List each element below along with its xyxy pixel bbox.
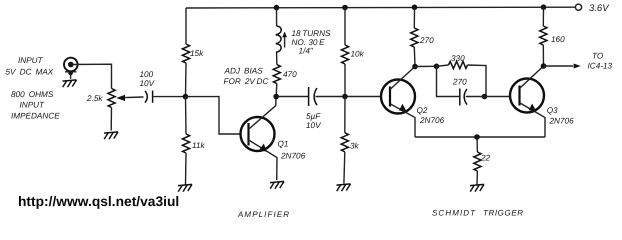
resistor R2 15k [182, 8, 204, 97]
svg-text:270: 270 [419, 36, 434, 45]
svg-text:FOR 2V DC: FOR 2V DC [224, 77, 269, 86]
node junction dot emitter rail [474, 134, 480, 140]
svg-text:INPUT: INPUT [20, 101, 46, 110]
wire C2 to Q2 base [316, 96, 383, 98]
transistor Q2 2N706 [381, 67, 445, 138]
transistor Q1 2N706 [241, 97, 306, 180]
node junction dot top of 270 branch [412, 5, 418, 11]
wire pot to ground [110, 108, 112, 131]
resistor R6 3k [341, 97, 359, 184]
wire output to IC4-13 [544, 52, 613, 71]
capacitor C1 100/10V [140, 70, 156, 103]
connector J1 input jack [64, 58, 78, 79]
wire jack to pot [71, 64, 112, 88]
svg-text:160: 160 [551, 35, 565, 44]
svg-text:470: 470 [283, 70, 297, 79]
svg-text:http://www.qsl.net/va3iul: http://www.qsl.net/va3iul [18, 194, 179, 209]
svg-text:SCHMIDT: SCHMIDT [432, 209, 476, 218]
ground jack shell [63, 80, 77, 87]
terminal 3.6V supply [575, 3, 610, 14]
svg-text:5V DC MAX: 5V DC MAX [6, 67, 54, 76]
svg-text:10V: 10V [306, 121, 322, 130]
svg-text:2.5k: 2.5k [86, 94, 103, 103]
svg-text:2N706: 2N706 [419, 116, 445, 125]
svg-text:270: 270 [452, 78, 467, 87]
resistor R4 470 [273, 52, 297, 96]
label AMPLIFIER [237, 210, 290, 219]
node junction dot Q3 base [482, 94, 488, 100]
svg-text:5µF: 5µF [306, 112, 321, 121]
label SCHMIDT TRIGGER [432, 209, 524, 218]
ground 11k [178, 184, 192, 191]
ground pot [104, 132, 118, 139]
svg-text:15k: 15k [190, 49, 204, 58]
resistor R7 270 [411, 7, 434, 66]
ground 3k [337, 184, 351, 191]
svg-text:3k: 3k [350, 142, 360, 151]
resistor R10 22 [474, 137, 491, 185]
transistor Q3 2N706 [510, 66, 574, 137]
inductor L1 18 turns [276, 8, 331, 56]
wire node to C2 [276, 96, 308, 98]
resistor R8 330 [437, 54, 487, 97]
capacitor C2 5uF 10V [306, 87, 322, 130]
svg-text:10k: 10k [351, 50, 365, 59]
svg-text:INPUT: INPUT [18, 56, 44, 65]
capacitor C3 270 [452, 78, 485, 106]
ground 22 [470, 184, 484, 191]
node junction dot Q3 collector [541, 63, 547, 69]
node junction dot top of 470/L branch [274, 5, 280, 11]
wire emitter rail Q2-Q3 [415, 136, 545, 138]
svg-text:Q3: Q3 [547, 106, 558, 115]
svg-text:ADJ BIAS: ADJ BIAS [224, 67, 264, 76]
svg-text:18 TURNS: 18 TURNS [292, 29, 331, 38]
wire 330 node down to C3 [437, 66, 460, 96]
ground Q1 emitter [270, 181, 284, 188]
svg-text:Q2: Q2 [417, 106, 428, 115]
svg-text:11k: 11k [192, 141, 205, 150]
wire node A to Q1 base [186, 97, 242, 134]
svg-text:IC4-13: IC4-13 [588, 62, 613, 71]
node junction dot top of 10k branch [342, 5, 348, 11]
node A junction dot [183, 94, 189, 100]
svg-text:3.6V: 3.6V [589, 3, 610, 14]
svg-text:IMPEDANCE: IMPEDANCE [11, 111, 60, 120]
svg-text:100: 100 [140, 70, 154, 79]
label INPUT 5V DC MAX [6, 56, 54, 77]
svg-text:2N706: 2N706 [549, 117, 575, 126]
resistor R9 160 [540, 7, 565, 66]
resistor R5 10k [341, 8, 364, 97]
potentiometer R1 2.5k [86, 89, 144, 108]
svg-text:TO: TO [592, 52, 604, 61]
node junction dot top of 160 branch [541, 4, 547, 10]
svg-text:330: 330 [451, 54, 465, 63]
svg-text:Q1: Q1 [278, 140, 289, 149]
svg-text:800 OHMS: 800 OHMS [11, 90, 54, 99]
wire top supply rail [186, 6, 576, 9]
wire node to Q3 base [485, 96, 512, 98]
svg-text:22: 22 [480, 154, 491, 163]
node junction dot Q2 collector [412, 64, 418, 70]
node junction dot 330 left [434, 64, 440, 70]
label ADJ BIAS FOR 2V DC [224, 67, 269, 87]
wire C1 to node A [154, 96, 186, 98]
svg-text:AMPLIFIER: AMPLIFIER [237, 210, 290, 219]
wire collector node to 330 node [415, 65, 437, 67]
resistor R3 11k [182, 97, 205, 185]
svg-text:1/4": 1/4" [299, 47, 314, 56]
svg-text:10V: 10V [140, 79, 156, 88]
label 800 OHMS INPUT IMPEDANCE [11, 90, 60, 120]
node junction dot 10k/3k/base [342, 94, 348, 100]
node junction dot Q1 collector [273, 94, 279, 100]
svg-text:2N706: 2N706 [280, 152, 306, 161]
label URL [18, 194, 179, 209]
svg-text:TRIGGER: TRIGGER [483, 209, 524, 218]
